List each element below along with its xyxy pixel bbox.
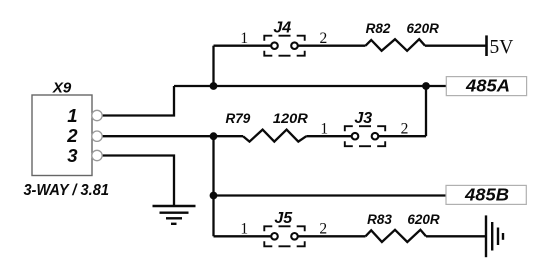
svg-text:3-WAY / 3.81: 3-WAY / 3.81	[23, 182, 109, 199]
svg-text:1: 1	[67, 105, 77, 126]
svg-text:J5: J5	[274, 210, 293, 227]
wire J4 to R82	[298, 45, 366, 47]
wire vertical to top row	[212, 46, 214, 86]
pin 2 circle	[92, 131, 102, 141]
ground left bar1	[153, 205, 196, 207]
svg-text:1: 1	[240, 221, 248, 238]
ground right bar2	[491, 222, 493, 251]
connector X9 body	[32, 95, 92, 176]
wire R82 to 5V	[425, 45, 487, 47]
node junction pin2	[210, 132, 218, 140]
ground left bar2	[160, 211, 189, 213]
wire vertical 485A to J3	[425, 86, 427, 136]
wire J5 to R83	[298, 235, 366, 237]
wire J3 to vertical	[378, 135, 426, 137]
resistor R79	[243, 130, 306, 142]
wire bottom row to J5	[214, 235, 272, 237]
svg-text:5V: 5V	[490, 37, 514, 58]
jumper J5	[264, 226, 304, 246]
ground left bar4	[171, 223, 177, 225]
svg-text:2: 2	[401, 121, 409, 138]
ground right bar1	[485, 215, 487, 257]
ground right bar4	[502, 233, 504, 240]
svg-text:J4: J4	[273, 20, 291, 37]
svg-text:485B: 485B	[464, 185, 509, 205]
wire pin1 to corner	[103, 86, 175, 116]
resistor R83	[366, 230, 427, 242]
node junction 485A-right	[422, 82, 430, 90]
svg-text:R82: R82	[366, 21, 391, 36]
svg-text:2: 2	[320, 30, 328, 47]
svg-text:2: 2	[66, 125, 78, 146]
wire net 485B horizontal	[214, 194, 447, 196]
node junction 485A-top	[210, 82, 218, 90]
wire vertical pin2 down	[212, 136, 214, 236]
svg-text:3: 3	[67, 145, 78, 166]
svg-text:R79: R79	[226, 111, 251, 126]
svg-text:1: 1	[240, 30, 248, 47]
pin 1 circle	[92, 110, 102, 120]
svg-text:485A: 485A	[465, 75, 510, 95]
svg-text:120R: 120R	[273, 111, 308, 126]
svg-text:2: 2	[319, 221, 327, 238]
svg-text:J3: J3	[354, 110, 372, 127]
jumper J4	[264, 36, 304, 56]
pin 3 circle	[92, 150, 102, 160]
wire net 485A horizontal	[174, 85, 446, 87]
svg-text:R83: R83	[367, 212, 392, 227]
power 5V bar	[485, 35, 488, 56]
svg-text:X9: X9	[52, 80, 72, 97]
wire top row to J4	[214, 45, 272, 47]
ground left bar3	[166, 217, 182, 219]
node junction 485B	[210, 192, 218, 200]
net label box 485A	[446, 77, 526, 96]
wire R79 to J3	[306, 135, 352, 137]
jumper J3	[345, 126, 385, 146]
svg-text:1: 1	[320, 121, 328, 138]
wire pin3 to ground	[103, 156, 175, 207]
wire R83 to ground	[426, 235, 485, 237]
svg-text:620R: 620R	[407, 21, 440, 36]
net label box 485B	[446, 185, 526, 204]
ground right bar3	[497, 228, 499, 246]
wire pin2 to R79	[103, 135, 244, 137]
svg-text:620R: 620R	[407, 212, 440, 227]
resistor R82	[366, 39, 426, 51]
